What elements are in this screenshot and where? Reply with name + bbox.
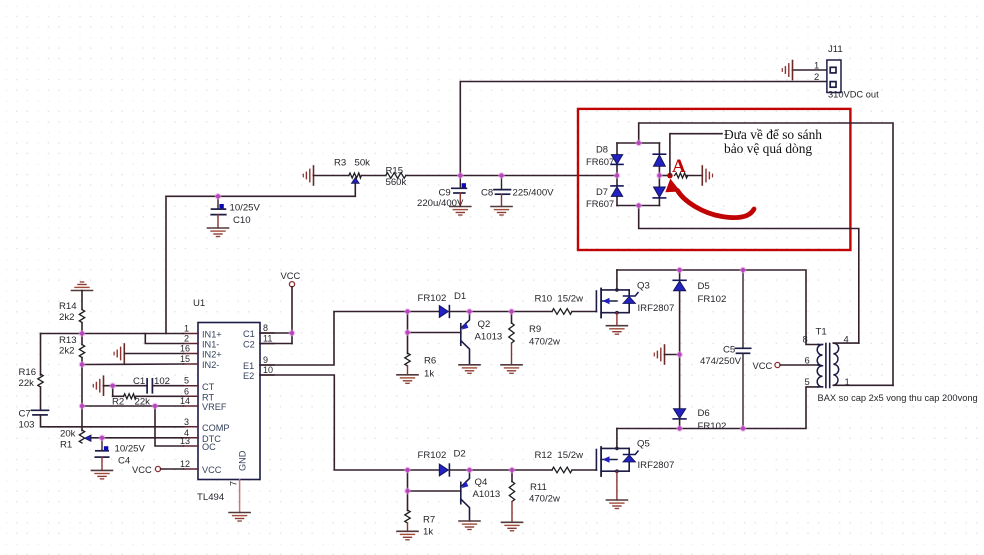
svg-text:12: 12 — [180, 459, 190, 469]
capacitor C5 plate1 — [735, 347, 750, 349]
wire: emitter node to R11 node — [470, 469, 513, 471]
wire: DC bus left segment — [314, 175, 349, 177]
svg-text:8: 8 — [263, 323, 268, 333]
wire: IN1+ horizontal net (R16 top to pin 1) — [41, 333, 184, 335]
capacitor C10 polarity square — [219, 204, 223, 208]
red curved arrow body — [678, 191, 755, 218]
svg-text:C2: C2 — [243, 340, 255, 350]
svg-text:COMP: COMP — [202, 423, 230, 433]
svg-text:R15: R15 — [386, 166, 404, 177]
svg-text:A1013: A1013 — [473, 489, 501, 500]
junction dot D1 anode node — [404, 308, 411, 315]
wire: bridge right rail segments — [658, 143, 660, 206]
junction dot CT/RT ground node — [109, 382, 116, 389]
svg-text:FR102: FR102 — [698, 294, 727, 305]
junction dot R13 bottom node — [79, 361, 86, 368]
svg-text:R11: R11 — [530, 482, 547, 493]
capacitor C1 plates (vertical) — [146, 379, 148, 393]
svg-text:C1: C1 — [133, 376, 145, 387]
ground at pin IN2+ — [114, 344, 124, 363]
svg-text:474/250V: 474/250V — [700, 356, 742, 367]
capacitor C10 lower stem — [217, 215, 219, 228]
junction dot C8 node — [498, 172, 505, 179]
wire: D1 node down to Q2 base branch — [407, 312, 409, 333]
svg-text:5: 5 — [184, 376, 189, 386]
resistor R16 zigzag — [38, 374, 43, 387]
ground at CT/RT network — [93, 376, 103, 395]
svg-text:9: 9 — [263, 355, 268, 365]
wire: D1 cathode to emitter node — [449, 311, 469, 313]
diode D7 (points up, cathode bar above) — [611, 185, 623, 187]
wire: Q2 base wire — [408, 332, 461, 334]
svg-text:E2: E2 — [243, 371, 254, 381]
svg-text:GND: GND — [238, 450, 248, 471]
resistor R7 zigzag — [405, 510, 410, 523]
svg-text:IRF2807: IRF2807 — [638, 460, 675, 471]
junction dot D2 anode node — [404, 467, 411, 474]
bridge right top diode (points up, bar above) — [653, 153, 665, 155]
diode D5 FR102 (points up, bar above) — [679, 270, 681, 280]
wire: OC pin 13 to VREF net — [155, 406, 184, 446]
junction dot D6 bottom rail node — [676, 425, 683, 432]
svg-text:VREF: VREF — [202, 402, 227, 412]
svg-text:Q5: Q5 — [637, 439, 650, 450]
svg-text:IRF2807: IRF2807 — [638, 303, 675, 314]
svg-text:VCC: VCC — [753, 360, 773, 371]
svg-text:2k2: 2k2 — [59, 346, 74, 357]
wire: D2 anode — [408, 469, 440, 471]
svg-text:R10 15/2w: R10 15/2w — [535, 294, 584, 305]
wire: J11 pin2 bus from C9 node up and right to connector — [460, 82, 827, 176]
capacitor C9 plate2 — [454, 192, 465, 194]
wire: C7 down and right to pin 3 COMP — [41, 415, 184, 427]
capacitor C5 upper stem — [742, 270, 744, 348]
svg-text:TL494: TL494 — [197, 492, 225, 503]
Q4 emitter arrow (PNP) — [462, 481, 469, 489]
ground below U1 pin 7 — [229, 513, 250, 522]
wire: R13 bottom node down to VREF net — [81, 365, 83, 407]
capacitor C8 stem — [501, 176, 503, 190]
bridge right bottom diode (points down, bar below) — [654, 187, 666, 197]
svg-text:IN2-: IN2- — [202, 360, 219, 370]
junction dot R11 node — [509, 467, 516, 474]
connector J11 pin square 2 — [830, 82, 836, 88]
wire: R2 right to pin 6 RT — [136, 395, 184, 397]
svg-text:C5: C5 — [723, 345, 735, 356]
ground below C4 — [92, 470, 113, 479]
junction dot R14/R13 node — [79, 330, 86, 337]
capacitor C4 plate2 — [95, 456, 108, 458]
junction dot C5 bottom rail node — [740, 425, 747, 432]
svg-text:D2: D2 — [454, 449, 466, 460]
wire: E1 pin 9 out, up and right to D1 node — [260, 312, 408, 366]
junction dot R9 node — [508, 308, 515, 315]
junction dot DTC/C4 node — [99, 434, 106, 441]
node A red dot — [667, 173, 673, 179]
wire: Q4 base wire — [408, 490, 461, 492]
connector J11 pin square 1 — [830, 67, 836, 73]
svg-text:D6: D6 — [698, 408, 710, 419]
shunt resistor zigzag at node A — [675, 173, 688, 178]
diode D6 FR102 (points down, bar below) — [674, 409, 686, 419]
svg-text:R16: R16 — [19, 367, 37, 378]
wire: R15 to bridge, through C9/C8 nodes — [406, 175, 617, 177]
wire: to R2 left — [113, 395, 124, 397]
capacitor C7 plate1 — [32, 409, 49, 411]
svg-text:22k: 22k — [19, 378, 35, 389]
svg-text:225/400V: 225/400V — [513, 188, 555, 199]
svg-text:3: 3 — [184, 417, 189, 427]
junction dot Q4 base node — [404, 488, 411, 495]
capacitor C9 lower stem — [459, 193, 461, 207]
junction dot C10 node — [215, 193, 222, 200]
svg-text:R12 15/2w: R12 15/2w — [535, 450, 584, 461]
svg-text:D7: D7 — [596, 186, 608, 197]
resistor R6 zigzag — [405, 353, 410, 366]
svg-text:4: 4 — [844, 334, 849, 345]
wire: D2 node down to Q4 base branch — [407, 470, 409, 491]
resistor R15 zigzag — [386, 173, 406, 179]
inverted ground above R14 — [72, 282, 93, 291]
wire: down to R7 — [407, 491, 409, 511]
ground right of node A — [702, 166, 712, 185]
resistor R9 zigzag with stems — [511, 312, 513, 324]
ground at J11 pin1 — [782, 61, 792, 80]
resistor R13 zigzag with stems — [81, 334, 83, 345]
svg-text:Đưa về để so sánh: Đưa về để so sánh — [724, 127, 822, 142]
potentiometer R1 wiper arrow — [85, 435, 91, 441]
wire: R16 to C7 — [40, 387, 42, 410]
svg-text:C8: C8 — [481, 188, 493, 199]
svg-text:103: 103 — [19, 420, 35, 431]
resistor R14 zigzag — [79, 310, 84, 323]
capacitor C8 plate2 — [496, 193, 510, 195]
svg-text:2k2: 2k2 — [59, 312, 74, 323]
svg-text:IN1-: IN1- — [202, 340, 219, 350]
svg-text:310VDC out: 310VDC out — [828, 90, 879, 100]
wire: VREF pin 14 horizontal net — [82, 405, 184, 407]
ground below Q2 collector — [459, 365, 480, 374]
junction dot Q4 emitter node — [466, 467, 473, 474]
svg-text:14: 14 — [180, 396, 190, 406]
svg-text:6: 6 — [184, 386, 189, 396]
svg-text:560k: 560k — [386, 177, 407, 188]
svg-text:7: 7 — [229, 481, 239, 486]
junction dot D5/D6 ground node — [676, 351, 683, 358]
U1 right pin stubs — [260, 333, 274, 375]
junction dot D5 top rail node — [676, 267, 683, 274]
svg-text:10: 10 — [263, 365, 273, 375]
wire: R9 node to R10 — [512, 311, 553, 313]
wire: Q3 drain up to rail — [616, 270, 618, 290]
op-amp / PWM IC U1 body — [198, 323, 260, 480]
svg-text:R3: R3 — [334, 158, 346, 169]
capacitor C4 stem from DTC node — [101, 438, 103, 451]
ground below C10 — [208, 228, 229, 237]
junction dot bridge bottom mid — [635, 202, 642, 209]
wire: ground to D5/D6 node — [665, 354, 680, 356]
svg-text:C10: C10 — [233, 215, 251, 226]
wire: R14 to IN1+ node — [81, 323, 83, 334]
ground below Q5 source — [606, 500, 627, 509]
svg-text:2: 2 — [184, 334, 189, 344]
svg-text:bảo vệ quá dòng: bảo vệ quá dòng — [724, 141, 812, 156]
svg-text:1k: 1k — [423, 527, 433, 538]
potentiometer R3 zigzag — [349, 173, 362, 178]
capacitor C8 plate1 — [494, 189, 511, 191]
svg-text:BAX so cap 2x5 vong thu cap 20: BAX so cap 2x5 vong thu cap 200vong — [818, 393, 978, 403]
svg-text:Q2: Q2 — [478, 319, 491, 330]
wire: R10 to Q3 gate — [572, 311, 596, 313]
svg-text:R1: R1 — [60, 440, 72, 451]
ground left of D5/D6 node — [654, 345, 664, 364]
svg-text:50k: 50k — [355, 158, 371, 169]
wire: R7 to ground — [407, 523, 409, 531]
svg-text:FR607: FR607 — [586, 156, 614, 167]
svg-text:FR607: FR607 — [586, 198, 614, 209]
svg-text:R14: R14 — [59, 301, 77, 312]
svg-text:E1: E1 — [243, 361, 254, 371]
svg-text:CT: CT — [202, 382, 215, 392]
svg-text:10/25V: 10/25V — [115, 444, 146, 455]
transformer T1 secondary winding (right, 4 arcs) — [833, 343, 838, 385]
svg-text:D1: D1 — [454, 291, 466, 302]
svg-text:T1: T1 — [816, 327, 827, 338]
wire: Q5 source down to ground — [616, 471, 618, 500]
svg-text:11: 11 — [263, 334, 272, 344]
svg-text:R13: R13 — [59, 335, 77, 346]
capacitor C4 plate1 — [96, 450, 108, 452]
svg-text:C7: C7 — [19, 409, 31, 420]
svg-text:R9: R9 — [529, 324, 541, 335]
junction dot C5 top rail node — [740, 267, 747, 274]
U1 left pin stubs — [184, 334, 199, 470]
wire: mid node down to D6 — [679, 355, 681, 409]
wire: R3 to R15 — [361, 175, 386, 177]
ground below R6 — [397, 375, 418, 384]
red curved arrow head — [665, 179, 680, 193]
capacitor C5 plate2 — [737, 352, 750, 354]
svg-text:20k: 20k — [60, 429, 76, 440]
U1 GND pin 7 stub — [239, 480, 241, 513]
svg-text:FR102: FR102 — [698, 421, 727, 432]
ground below C8 — [491, 207, 512, 216]
transformer T1 pin 6 stub — [818, 364, 823, 367]
wire: J11 pin1 to ground — [793, 69, 827, 71]
capacitor C9 stem — [459, 176, 461, 189]
svg-text:Q3: Q3 — [637, 281, 650, 292]
wire: VCC down to C1/C2 pins — [291, 287, 293, 344]
wire: bottom rail from Q5 drain to T1 pin 5 — [617, 387, 818, 429]
wire: R13 bottom node to pin 15 — [82, 363, 184, 366]
wire: top rail from Q3 drain to T1 pin 8 — [617, 270, 818, 345]
svg-text:A1013: A1013 — [475, 332, 503, 343]
svg-text:470/2w: 470/2w — [529, 494, 560, 505]
connector J11 body — [827, 60, 841, 93]
wire: ground to R14 — [81, 291, 83, 310]
svg-text:16: 16 — [180, 344, 190, 354]
wire: E2 pin 10 out, down and right to D2 node — [260, 375, 408, 470]
svg-text:C1: C1 — [243, 329, 255, 339]
transistor Q2 (PNP) — [461, 312, 470, 365]
wire: ground node down to R2 — [112, 386, 114, 397]
wire: IN1- jog from IN1+ net to pin 2 — [145, 334, 183, 344]
wire: R6 to ground — [407, 366, 409, 375]
transformer T1 pin 8 stub — [818, 344, 823, 346]
capacitor C10 plate1 — [212, 208, 226, 210]
wire: VCC port to T1 pin 6 — [780, 364, 818, 366]
wire: R3 wiper down and left to C10 node, down to U1 pin1 net — [166, 183, 355, 333]
capacitor C9 polarity square — [462, 183, 466, 187]
wire: VREF node down to R1 — [81, 406, 83, 431]
svg-text:10/25V: 10/25V — [230, 203, 261, 214]
diode D1 (points right) — [439, 306, 448, 318]
svg-text:IN1+: IN1+ — [202, 330, 222, 340]
capacitor C10 polarized: stem — [217, 196, 219, 209]
wire: bridge left rail segments — [616, 143, 618, 206]
wire: bridge top mid up and right to T1 pin1 column — [639, 123, 893, 385]
svg-text:R6: R6 — [424, 356, 436, 367]
junction dot bridge right mid — [656, 172, 663, 179]
wire: node A leader up and right to annotation — [670, 134, 722, 176]
transformer T1 pin 4 stub — [833, 342, 858, 344]
junction dot bridge top mid — [635, 140, 642, 147]
wire: D6 bar to bottom rail — [679, 419, 681, 429]
svg-text:C4: C4 — [118, 456, 131, 467]
diode D2 (points right) — [439, 464, 448, 476]
transformer T1 pin 5 stub — [818, 386, 823, 388]
ground below C9 — [450, 207, 471, 216]
wire: bridge bottom mid down and right to T1 pin4 column — [639, 206, 859, 344]
junction dot Q2 base node — [404, 329, 411, 336]
junction dot VREF left node — [79, 403, 86, 410]
svg-text:8: 8 — [803, 334, 808, 345]
resistor R10 zigzag — [552, 309, 572, 315]
resistor R2 zigzag — [124, 394, 137, 399]
svg-text:J11: J11 — [828, 44, 843, 55]
wire: IN2+ ground to pin 16 — [124, 353, 183, 355]
svg-text:102: 102 — [154, 376, 170, 387]
svg-text:FR102: FR102 — [418, 450, 447, 461]
junction dot VREF/OC node — [152, 403, 159, 410]
wire: pin 11 to VCC column — [260, 343, 292, 345]
capacitor C7 plate2 — [33, 414, 47, 416]
diode D8 (points down, cathode bar below) — [611, 155, 622, 165]
wire: R16 branch vertical — [40, 334, 42, 376]
wire: pin 8 to VCC column — [260, 332, 292, 334]
svg-text:VCC: VCC — [281, 270, 301, 281]
ground below R9 — [501, 365, 522, 374]
potentiometer R1 zigzag — [79, 430, 84, 443]
transformer T1 pin 1 stub — [833, 384, 893, 386]
wire: shunt to ground — [686, 175, 702, 177]
svg-text:1k: 1k — [424, 369, 434, 380]
svg-text:1: 1 — [814, 60, 819, 71]
ground at left end of DC bus — [303, 166, 313, 185]
svg-text:470/2w: 470/2w — [529, 337, 560, 348]
wire: Q3 source down to ground — [616, 313, 618, 326]
wire: D2 cathode to emitter node — [449, 469, 469, 471]
transformer T1 primary winding (left, 4 arcs) — [817, 345, 822, 387]
wire: R12 to Q5 gate — [572, 469, 596, 471]
wire: ground to C1 left plate — [104, 385, 147, 387]
wire: R11 node to R12 — [512, 469, 552, 471]
transistor Q4 (PNP) — [461, 470, 470, 521]
svg-text:OC: OC — [202, 442, 216, 452]
junction dot Q2 emitter node — [466, 308, 473, 315]
svg-text:C9: C9 — [439, 188, 451, 199]
svg-text:5: 5 — [805, 376, 810, 387]
potentiometer R3 wiper arrow — [351, 178, 359, 184]
ground below R7 — [397, 531, 418, 540]
capacitor C4 polarity square — [104, 446, 108, 450]
svg-text:2: 2 — [814, 71, 819, 82]
capacitor C5 lower stem — [742, 353, 744, 428]
resistor R12 zigzag — [552, 467, 572, 473]
svg-text:Q4: Q4 — [475, 477, 488, 488]
junction dot VCC/C1C2 node — [289, 330, 296, 337]
red highlight box — [578, 109, 850, 250]
svg-text:VCC: VCC — [132, 464, 152, 475]
svg-text:VCC: VCC — [202, 465, 222, 475]
svg-text:6: 6 — [805, 355, 810, 366]
svg-text:220u/400V: 220u/400V — [417, 198, 464, 209]
svg-text:15: 15 — [180, 354, 190, 364]
wire: D1 anode — [408, 311, 440, 313]
wire: D5 cathode down to mid node — [679, 291, 681, 355]
wire: emitter node to R9 node — [470, 311, 512, 313]
wire: C1 right plate to pin 5 CT — [152, 385, 183, 387]
junction dot bridge left mid — [614, 172, 621, 179]
wire: Q5 drain up to bottom rail — [616, 429, 618, 449]
capacitor C8 lower stem — [501, 194, 503, 206]
ground below Q3 source — [606, 326, 627, 335]
wire: bridge right mid to node A — [659, 175, 670, 177]
capacitor C4 lower stem — [101, 457, 103, 470]
svg-text:D5: D5 — [698, 281, 710, 292]
Q2 emitter arrow (PNP) — [462, 322, 469, 330]
resistor R11 zigzag with stems — [511, 470, 513, 482]
svg-text:U1: U1 — [193, 298, 205, 309]
svg-text:IN2+: IN2+ — [202, 350, 222, 360]
wire: R1 wiper to pin 4 DTC — [91, 437, 184, 439]
junction dot C9 node — [457, 172, 464, 179]
capacitor C10 plate2 — [211, 214, 226, 216]
MOSFET Q5 IRF2807 — [596, 447, 638, 476]
svg-text:FR102: FR102 — [418, 293, 447, 304]
svg-text:1: 1 — [845, 376, 850, 387]
svg-text:RT: RT — [202, 393, 214, 403]
ground below Q4 collector — [459, 521, 480, 530]
wire: down to R6 — [407, 333, 409, 354]
transformer T1 core lines — [825, 344, 827, 388]
wire: bridge top rail — [617, 142, 659, 144]
svg-text:R7: R7 — [423, 515, 435, 526]
svg-text:1: 1 — [184, 324, 189, 334]
MOSFET Q3 IRF2807 — [596, 288, 638, 317]
svg-text:D8: D8 — [596, 144, 608, 155]
capacitor C9 plate1 — [452, 187, 467, 189]
wire: VCC port to pin 12 — [161, 468, 184, 470]
ground below R11 — [502, 522, 523, 531]
wire: bridge bottom rail — [617, 205, 659, 207]
